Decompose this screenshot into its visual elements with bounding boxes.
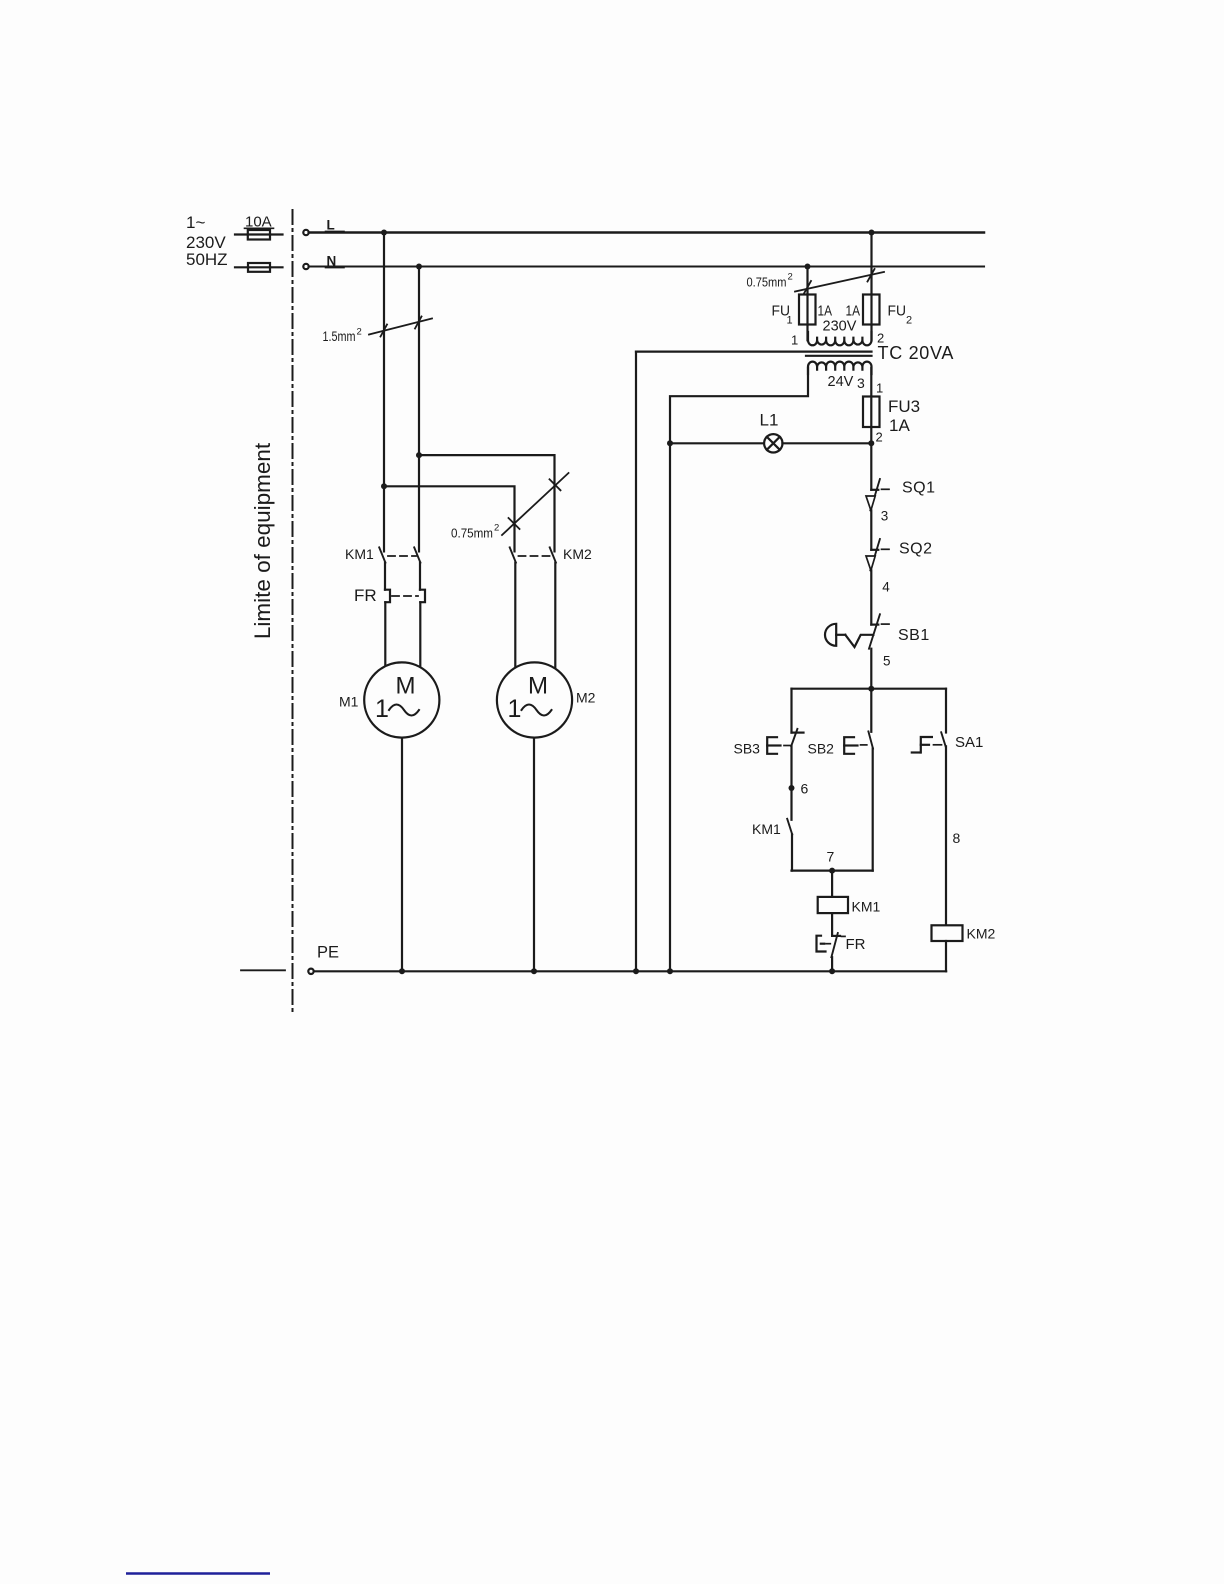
svg-text:8: 8 bbox=[953, 830, 961, 846]
transformer core line (earthed) bbox=[636, 351, 872, 353]
svg-text:SB3: SB3 bbox=[734, 741, 761, 757]
boundary dash-dot line: Limite of equipment bbox=[292, 210, 294, 1012]
wire L1 row right bbox=[782, 442, 871, 444]
wire from N down to KM1 pole 2 bbox=[418, 267, 420, 552]
wire SB2 to rail 7 bbox=[872, 749, 874, 871]
selector switch SA1 (NO) bbox=[912, 732, 946, 752]
svg-text:FU: FU bbox=[888, 303, 907, 320]
svg-text:SQ2: SQ2 bbox=[899, 541, 933, 558]
node N-tap right (FU1) bbox=[805, 264, 811, 270]
wire SQ1 to SQ2 bbox=[870, 510, 872, 549]
svg-text:1~: 1~ bbox=[186, 213, 205, 232]
label 1.5mm2 bbox=[323, 327, 362, 345]
node N label bbox=[326, 254, 345, 269]
wire KM1 coil to FR contact bbox=[831, 913, 833, 936]
cable mark 0.75mm2 slash (transformer feeder) bbox=[795, 269, 884, 294]
svg-text:PE: PE bbox=[317, 944, 339, 962]
wire SQ2 to SB1 bbox=[870, 570, 872, 624]
svg-text:SB2: SB2 bbox=[808, 741, 835, 757]
fuse 10A (line side) bbox=[235, 230, 283, 240]
wire KM2 pole2 to motor M2 bbox=[554, 563, 556, 669]
FR mechanical link (dashed) bbox=[392, 595, 418, 597]
transformer TC primary winding bbox=[808, 332, 872, 345]
pushbutton SB2 (NO, start) bbox=[844, 731, 873, 753]
transformer secondary winding 24V bbox=[808, 362, 872, 374]
thermal overload contact FR (NC) bbox=[817, 933, 846, 957]
wire rail at node 7 bbox=[792, 869, 873, 871]
limit switch SQ2 (NC) bbox=[866, 539, 889, 570]
KM1 mechanical link (dashed) bbox=[388, 555, 416, 557]
svg-text:0.75mm: 0.75mm bbox=[451, 526, 493, 541]
supply label 1~ 230V 50HZ bbox=[186, 213, 228, 269]
contactor contact KM1 pole 2 bbox=[414, 547, 420, 562]
node FR-PE bbox=[829, 968, 835, 974]
node L1 left bbox=[667, 440, 673, 446]
label 10A with underline bbox=[245, 214, 274, 231]
fuse FU2 bbox=[863, 295, 880, 325]
wire secondary to FU3 bbox=[870, 368, 872, 397]
wire KM2 pole1 to motor M2 bbox=[514, 563, 516, 668]
terminal L bbox=[303, 230, 308, 235]
node branch KM2 pole1 bbox=[381, 483, 387, 489]
limit switch SQ1 (NC) bbox=[866, 479, 889, 510]
label 0.75mm2 (motor feeder) bbox=[451, 523, 499, 541]
wire PE stub left of boundary bbox=[241, 969, 285, 971]
svg-text:M: M bbox=[528, 673, 548, 700]
contactor contact KM1 pole 1 bbox=[379, 547, 385, 562]
fuse (neutral side) bbox=[235, 263, 283, 272]
wire FU3 to node 2 bbox=[870, 427, 872, 443]
svg-text:M2: M2 bbox=[576, 690, 596, 706]
svg-text:2: 2 bbox=[494, 523, 499, 534]
wire PE rail bbox=[314, 970, 946, 972]
wire secondary return (24V) to L1 row bbox=[670, 368, 808, 443]
wire FR to PE rail bbox=[831, 957, 833, 971]
svg-text:1A: 1A bbox=[846, 303, 861, 320]
node 7 bbox=[829, 868, 835, 874]
node branch KM2 pole2 bbox=[416, 452, 422, 458]
contactor contact KM2 pole 1 bbox=[510, 547, 516, 562]
svg-text:KM1: KM1 bbox=[752, 821, 781, 837]
overload heater FR pole 1 bbox=[385, 590, 390, 603]
wire N to FU1 bbox=[806, 267, 808, 341]
wire 24V return down to PE bbox=[669, 443, 671, 971]
svg-text:FR: FR bbox=[846, 936, 866, 953]
contactor contact KM2 pole 2 bbox=[550, 547, 556, 562]
svg-text:50HZ: 50HZ bbox=[186, 250, 228, 269]
auxiliary contact KM1 (NO, self-hold) bbox=[787, 819, 792, 835]
svg-text:KM1: KM1 bbox=[852, 899, 881, 915]
svg-text:5: 5 bbox=[883, 654, 891, 669]
wire L to FU2 bbox=[870, 233, 872, 341]
wire SA1 to KM2 coil bbox=[945, 746, 947, 925]
wire KM1 pole1 to FR bbox=[384, 563, 386, 590]
svg-text:2: 2 bbox=[876, 430, 883, 445]
svg-text:1: 1 bbox=[787, 315, 793, 327]
svg-text:7: 7 bbox=[827, 849, 835, 865]
svg-text:FR: FR bbox=[354, 586, 377, 605]
svg-text:3: 3 bbox=[857, 375, 865, 391]
node L label bbox=[326, 218, 345, 233]
wire core to PE bbox=[635, 352, 637, 972]
wire node 2 to SQ1 bbox=[870, 443, 872, 490]
svg-text:24V: 24V bbox=[828, 374, 854, 390]
junction dots bbox=[381, 230, 875, 975]
wire N rail bbox=[309, 265, 984, 267]
node 5 bbox=[868, 686, 874, 692]
label 0.75mm2 (transformer feeder) bbox=[747, 272, 793, 290]
terminal PE bbox=[308, 969, 313, 974]
svg-text:2: 2 bbox=[357, 327, 362, 338]
svg-text:SB1: SB1 bbox=[898, 627, 930, 644]
svg-text:SQ1: SQ1 bbox=[902, 480, 936, 497]
label FU3 1A bbox=[888, 397, 920, 435]
transformer core line 2 bbox=[806, 355, 872, 357]
svg-text:M1: M1 bbox=[339, 694, 359, 710]
svg-text:TC 20VA: TC 20VA bbox=[878, 343, 955, 363]
svg-text:2: 2 bbox=[788, 272, 793, 283]
svg-text:Limite of equipment: Limite of equipment bbox=[250, 442, 275, 639]
svg-text:1: 1 bbox=[508, 695, 522, 723]
node core-PE bbox=[633, 968, 639, 974]
svg-text:6: 6 bbox=[801, 781, 809, 797]
svg-text:1: 1 bbox=[876, 381, 883, 396]
coil KM2 bbox=[932, 925, 963, 941]
node L-tap right (FU2) bbox=[869, 230, 875, 236]
node M2-PE bbox=[531, 968, 537, 974]
wire L1 row left bbox=[670, 442, 764, 444]
wire KM1 aux to rail 7 bbox=[791, 834, 793, 870]
svg-text:1.5mm: 1.5mm bbox=[323, 329, 356, 344]
svg-text:KM1: KM1 bbox=[345, 546, 374, 562]
wire KM2 coil to PE rail bbox=[945, 941, 947, 971]
motor M2 bbox=[497, 662, 572, 737]
svg-text:L1: L1 bbox=[760, 411, 779, 430]
cable mark 1.5mm2 slash bbox=[369, 317, 432, 337]
pushbutton SB1 (NC, mushroom head) bbox=[825, 614, 889, 648]
wire branch to KM2 pole 1 (from L line) bbox=[384, 486, 515, 551]
svg-text:2: 2 bbox=[906, 315, 912, 327]
fuse FU3 bbox=[863, 397, 880, 428]
overload heater FR pole 2 bbox=[420, 590, 425, 603]
label FU2 bbox=[823, 303, 913, 335]
wire SB3 branch top bbox=[790, 689, 792, 733]
svg-text:KM2: KM2 bbox=[967, 926, 996, 942]
svg-text:4: 4 bbox=[882, 580, 890, 595]
footer blue rule bbox=[126, 1572, 270, 1574]
svg-text:KM2: KM2 bbox=[563, 546, 592, 562]
wire SB3 to node 6 bbox=[790, 746, 792, 820]
svg-text:1: 1 bbox=[791, 333, 798, 348]
pushbutton SB3 (NO) bbox=[767, 729, 803, 754]
wire from L down to KM1 pole 1 bbox=[383, 233, 385, 552]
node M1-PE bbox=[399, 968, 405, 974]
svg-text:230V: 230V bbox=[823, 319, 857, 335]
node L-tap left bbox=[381, 230, 387, 236]
svg-text:L: L bbox=[327, 218, 335, 233]
wire SB2 branch (from node 5) bbox=[870, 689, 872, 732]
wire M2 to PE bbox=[533, 738, 535, 972]
svg-text:FU3: FU3 bbox=[888, 397, 920, 416]
KM2 mechanical link (dashed) bbox=[519, 555, 552, 557]
wire SA1 branch top bbox=[945, 689, 947, 733]
wire L rail bbox=[309, 231, 984, 234]
svg-text:0.75mm: 0.75mm bbox=[747, 275, 787, 290]
wire FR pole1 to motor M1 bbox=[384, 602, 386, 666]
node 24V-return-PE bbox=[667, 968, 673, 974]
wire M1 to PE bbox=[401, 738, 403, 972]
wire node 7 to KM1 coil bbox=[831, 871, 833, 897]
wire SB1 to node 5 rail bbox=[870, 649, 872, 689]
node N-tap left bbox=[416, 264, 422, 270]
svg-text:1A: 1A bbox=[889, 416, 910, 435]
svg-text:SA1: SA1 bbox=[955, 734, 983, 751]
node 2 (FU3 out) bbox=[868, 440, 874, 446]
svg-text:1: 1 bbox=[375, 695, 389, 723]
svg-text:3: 3 bbox=[881, 509, 889, 524]
fuse FU1 bbox=[799, 295, 816, 325]
wire branch to KM2 pole 2 (from N line) bbox=[419, 455, 555, 551]
lamp L1 bbox=[764, 434, 782, 452]
wire FR pole2 to motor M1 bbox=[419, 602, 421, 667]
motor M1 bbox=[364, 662, 439, 737]
wire KM1 pole2 to FR bbox=[419, 563, 421, 590]
coil KM1 bbox=[818, 897, 848, 913]
wire top rail of branches bbox=[792, 688, 947, 690]
label FU1 bbox=[772, 303, 833, 327]
node 6 bbox=[789, 785, 795, 791]
svg-text:1A: 1A bbox=[818, 303, 833, 320]
svg-text:M: M bbox=[396, 673, 416, 700]
terminal N bbox=[303, 264, 308, 269]
cable mark 0.75mm2 slash (motor feeder) bbox=[502, 473, 569, 535]
